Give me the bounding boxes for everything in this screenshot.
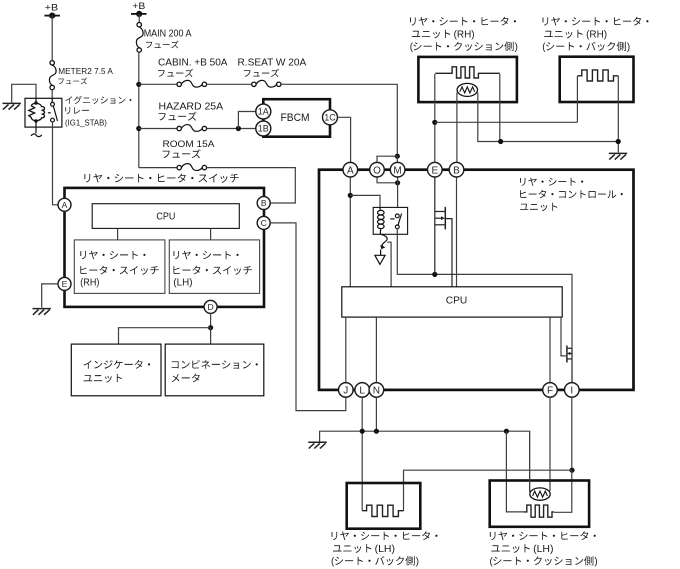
svg-text:E: E: [62, 279, 68, 289]
terminal F (control): [543, 383, 558, 398]
wire heater RH cushion right lead: [499, 74, 501, 142]
terminal N (control): [369, 383, 384, 398]
relay box IG1 ignition relay: [25, 98, 62, 127]
relay contact (control unit): [390, 214, 401, 229]
node HAZARD branch: [136, 126, 141, 131]
node L on bus: [360, 429, 365, 434]
rear seat heater control unit box: [319, 170, 634, 390]
ground bus: [320, 431, 530, 492]
wire node to M: [396, 156, 398, 162]
wire ROOM branch: [139, 167, 177, 169]
label heater unit RH back: [543, 17, 649, 26]
power symbol +B (left): [44, 2, 60, 18]
svg-text:(RH): (RH): [586, 30, 607, 41]
svg-text:R.SEAT W 20A: R.SEAT W 20A: [238, 57, 307, 68]
ground (switch E): [33, 309, 51, 315]
relay coil output arrow: [380, 234, 387, 255]
svg-text:B: B: [261, 198, 267, 208]
rear seat heater unit LH cushion box: [490, 481, 589, 527]
svg-text:O: O: [373, 165, 381, 176]
thermistor RH cushion: [457, 83, 477, 96]
node heater returns join: [616, 139, 621, 144]
label ignition relay: [65, 96, 131, 104]
terminal L (control): [355, 383, 370, 398]
label rear seat heater switch title: [84, 173, 238, 182]
node E branch to back unit: [432, 120, 437, 125]
wire FBCM 1C to control unit terminal A: [338, 117, 351, 162]
fuse R.SEAT W 20A: [252, 80, 281, 87]
wire arrow node to CPU: [387, 242, 391, 287]
wire branch to indicator unit: [119, 328, 211, 344]
svg-text:(LH): (LH): [533, 544, 553, 555]
ignition relay coil: [36, 103, 45, 121]
label heater unit LH back: [332, 531, 438, 540]
rear seat heater switch box: [65, 188, 265, 307]
wire L to LH back unit: [361, 397, 363, 511]
fuse MAIN 200A: [136, 23, 143, 53]
wire bus to LH cushion heater: [506, 431, 523, 512]
relay box (control unit): [373, 207, 407, 234]
terminal O (control): [370, 162, 385, 177]
terminal I (control): [565, 383, 580, 398]
svg-text:FBCM: FBCM: [281, 112, 310, 124]
fuse CABIN +B 50A: [177, 80, 207, 87]
svg-text:HAZARD 25A: HAZARD 25A: [159, 102, 224, 113]
terminal C (switch): [257, 216, 270, 229]
svg-text:(LH): (LH): [173, 278, 192, 289]
wire M to relay contact: [397, 177, 399, 207]
ground (bus): [308, 442, 326, 448]
thermistor LH cushion: [530, 488, 550, 500]
open triangle output symbol: [375, 255, 385, 264]
relay coil (control unit): [378, 207, 385, 234]
wire N to ground bus: [375, 397, 377, 431]
indicator unit box: [71, 344, 161, 396]
wire HAZARD fuse to FBCM 1B: [207, 128, 256, 130]
svg-text:L: L: [359, 386, 365, 397]
fuse METER2 7.5A: [49, 61, 56, 90]
svg-text:E: E: [431, 165, 438, 176]
RH switch block: [74, 240, 165, 294]
terminal A (switch): [58, 198, 71, 211]
fuse HAZARD 25A: [177, 125, 207, 132]
wire E to heater element: [434, 74, 436, 162]
svg-text:B: B: [453, 165, 460, 176]
terminal E (control): [428, 162, 443, 177]
node I branch: [569, 468, 574, 473]
wire R.SEAT fuse to terminal M/O: [281, 84, 397, 156]
svg-text:METER2 7.5 A: METER2 7.5 A: [58, 66, 113, 76]
wire RH back right lead: [617, 76, 619, 153]
node M tie: [395, 180, 400, 185]
node D branch: [208, 325, 213, 330]
node heater RH cushion return: [498, 139, 503, 144]
wire ground to relay coil: [12, 84, 36, 103]
svg-text:(RH): (RH): [80, 278, 99, 289]
svg-text:1A: 1A: [258, 107, 269, 117]
wire +B to MAIN fuse: [138, 14, 140, 23]
terminal 1C: [323, 110, 338, 125]
wire MAIN bus: [138, 52, 140, 167]
terminal B (control): [449, 162, 464, 177]
terminal 1A: [256, 104, 271, 119]
wire switch C to control unit terminal J: [270, 223, 346, 411]
wire METER2 fuse to ignition relay: [51, 90, 53, 99]
wire CPU to LH switch block: [210, 228, 212, 240]
node heater LH cushion feed: [504, 429, 509, 434]
svg-text:CPU: CPU: [156, 212, 175, 223]
svg-text:): ): [515, 42, 518, 53]
svg-text:(IG1_STAB): (IG1_STAB): [65, 117, 107, 127]
wire CABIN fuse to R.SEAT fuse: [207, 83, 252, 85]
wire to HAZARD fuse: [139, 128, 177, 130]
label heater unit RH cushion: [410, 17, 516, 26]
fuse ROOM 15A: [177, 164, 207, 171]
transistor Q1 (high-side FET): [435, 177, 452, 287]
node E rail joins relay output: [432, 272, 437, 277]
ignition relay contact: [48, 99, 58, 122]
FBCM box: [263, 99, 330, 137]
LH switch block: [169, 240, 259, 294]
wire ROOM fuse to switch terminal B: [207, 168, 296, 203]
wire I down: [571, 397, 573, 470]
rear seat heater unit LH back box: [347, 483, 421, 529]
heater element RH cushion: [435, 67, 500, 78]
transistor Q2 (low-side FET): [567, 346, 572, 383]
svg-text:1B: 1B: [258, 124, 269, 134]
svg-text:CPU: CPU: [446, 296, 468, 307]
wire node to O: [377, 156, 397, 162]
rear seat heater unit RH cushion box: [418, 57, 517, 102]
wire to relay coil: [350, 195, 380, 207]
label heater unit LH cushion: [490, 531, 596, 540]
terminal B (switch): [257, 197, 270, 210]
svg-text:+B: +B: [132, 1, 145, 11]
wire E branch to RH back unit: [435, 121, 578, 123]
svg-text:): ): [594, 557, 597, 568]
heater element LH back: [362, 505, 403, 516]
CPU box (switch): [92, 204, 239, 229]
CPU box (control unit): [342, 287, 562, 317]
svg-text:1C: 1C: [324, 113, 336, 123]
label control unit: [520, 178, 583, 186]
wire CPU to N: [375, 317, 377, 383]
terminal D (switch): [204, 300, 217, 313]
heater element RH back: [577, 70, 618, 81]
svg-text:(LH): (LH): [375, 544, 395, 555]
svg-text:N: N: [373, 386, 380, 397]
svg-text:J: J: [343, 386, 348, 397]
ignition relay resistor: [29, 103, 36, 121]
node A to relay coil: [348, 193, 353, 198]
combination meter box: [165, 344, 264, 396]
svg-text:F: F: [547, 386, 553, 397]
terminal E (switch): [58, 277, 71, 290]
wire I to LH back heater right lead: [404, 470, 573, 511]
power symbol +B (main): [131, 1, 147, 17]
wire F to LH cushion thermistor: [549, 397, 551, 491]
svg-text:C: C: [261, 218, 267, 228]
wire switch E to ground: [42, 284, 59, 308]
node R.SEAT feed above M: [395, 154, 400, 159]
heater element LH cushion: [524, 505, 555, 517]
wire CPU to J: [345, 317, 347, 383]
ground (ignition relay): [3, 103, 21, 109]
wire O-M tie below terminals: [377, 177, 398, 183]
svg-text:ROOM 15A: ROOM 15A: [163, 139, 216, 150]
wire thermistor to terminal B: [456, 93, 458, 163]
terminal J (control): [339, 383, 354, 398]
wire CPU to Q2 gate: [561, 317, 566, 356]
wire CPU to RH switch block: [117, 228, 119, 240]
wire CPU to F: [549, 317, 551, 383]
wire switch D down: [210, 313, 212, 328]
terminal 1B: [256, 121, 271, 136]
svg-text:): ): [416, 557, 419, 568]
wire B to CPU: [456, 177, 458, 287]
terminal M (control): [390, 162, 405, 177]
node CABIN branch: [136, 82, 141, 87]
terminal A (control): [343, 162, 358, 177]
svg-text:I: I: [570, 386, 573, 397]
svg-text:D: D: [207, 302, 213, 312]
wire +B to METER2 fuse: [51, 16, 53, 61]
svg-text:A: A: [347, 165, 354, 176]
wire branch to FBCM 1A: [238, 112, 255, 129]
wire RH back left lead: [576, 76, 578, 123]
wire to CABIN fuse: [139, 83, 177, 85]
svg-text:CABIN. +B 50A: CABIN. +B 50A: [158, 57, 228, 68]
wire I to LH cushion heater right lead: [554, 470, 572, 512]
wire branch to combination meter: [210, 328, 212, 344]
svg-text:(RH): (RH): [454, 30, 475, 41]
svg-text:): ): [627, 42, 630, 53]
ignition relay coil lead with curl: [31, 127, 42, 137]
node N on bus: [374, 429, 379, 434]
wire A to CPU: [349, 177, 351, 287]
node 1A/1B branch: [236, 126, 241, 131]
svg-text:A: A: [62, 200, 68, 210]
wire ignition relay to switch terminal A: [53, 122, 59, 205]
svg-text:M: M: [393, 165, 401, 176]
wire thermistor left lead to ground bus: [529, 431, 531, 492]
rear seat heater unit RH back box: [560, 57, 634, 102]
svg-text:+B: +B: [45, 2, 58, 12]
svg-text:MAIN 200 A: MAIN 200 A: [144, 29, 192, 40]
wire thermistor right lead: [478, 93, 618, 142]
ground (heater RH): [609, 153, 627, 159]
wire relay contact output: [397, 229, 572, 347]
